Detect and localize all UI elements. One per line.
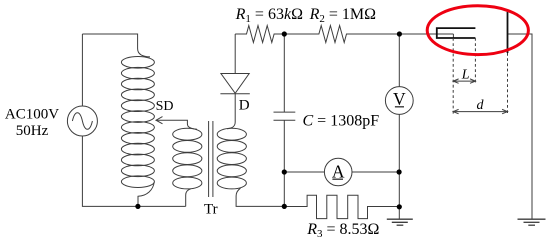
svg-text:50Hz: 50Hz bbox=[16, 123, 49, 139]
svg-text:L: L bbox=[461, 67, 470, 82]
svg-text:R1 = 63kΩ: R1 = 63kΩ bbox=[235, 6, 303, 25]
svg-text:D: D bbox=[239, 98, 250, 114]
svg-text:SD: SD bbox=[156, 99, 174, 114]
svg-text:AC100V: AC100V bbox=[5, 106, 59, 122]
svg-text:d: d bbox=[477, 98, 485, 113]
svg-text:Tr: Tr bbox=[204, 201, 218, 217]
svg-text:A: A bbox=[332, 161, 345, 181]
svg-text:C = 1308pF: C = 1308pF bbox=[303, 113, 380, 130]
svg-text:R2 = 1MΩ: R2 = 1MΩ bbox=[309, 6, 377, 25]
svg-text:V: V bbox=[393, 89, 406, 109]
